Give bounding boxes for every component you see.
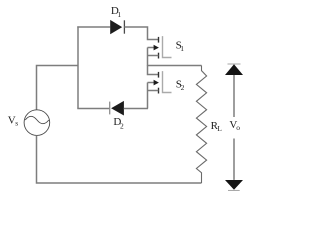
wire: D2 anode to S2 source — [124, 108, 148, 110]
wire: S2 source/body down to D2 anode wire — [147, 83, 149, 109]
wire: Vs bottom lead down and right along bottom rail to load — [37, 135, 202, 183]
svg-text:L: L — [217, 124, 222, 133]
svg-text:2: 2 — [181, 83, 185, 92]
annotation Vo: up arrow with tip bar — [225, 64, 243, 75]
wire: S2 drain from midpoint node — [148, 65, 159, 75]
svg-text:1: 1 — [117, 10, 121, 19]
wire: D1 anode wire — [77, 26, 110, 28]
svg-text:2: 2 — [120, 121, 124, 130]
diode D1 — [110, 20, 124, 34]
wire: left vertical rail between D1 and D2 — [77, 26, 79, 108]
wire: left rail to D2 cathode — [77, 108, 109, 110]
wire: S1 source/body down to midpoint node — [147, 48, 149, 66]
svg-text:1: 1 — [180, 44, 184, 53]
annotation Vo: down arrow with tip bar — [225, 180, 243, 190]
diode D2 — [110, 101, 124, 116]
source Vs (AC source circle with sine) — [24, 110, 50, 136]
transistor S2 (MOSFET) — [148, 71, 172, 93]
annotation Vo: measurement line (with gap at label) — [233, 75, 235, 117]
wire: D1 cathode to S1 drain — [124, 27, 158, 40]
svg-text:s: s — [15, 118, 18, 127]
wire: midpoint node to load (output node) — [148, 65, 202, 67]
wire: Vs top lead up and right to left rail — [37, 66, 79, 111]
resistor RL (zigzag) — [196, 66, 206, 184]
transistor S1 (MOSFET) — [148, 36, 172, 58]
svg-text:o: o — [236, 123, 240, 132]
